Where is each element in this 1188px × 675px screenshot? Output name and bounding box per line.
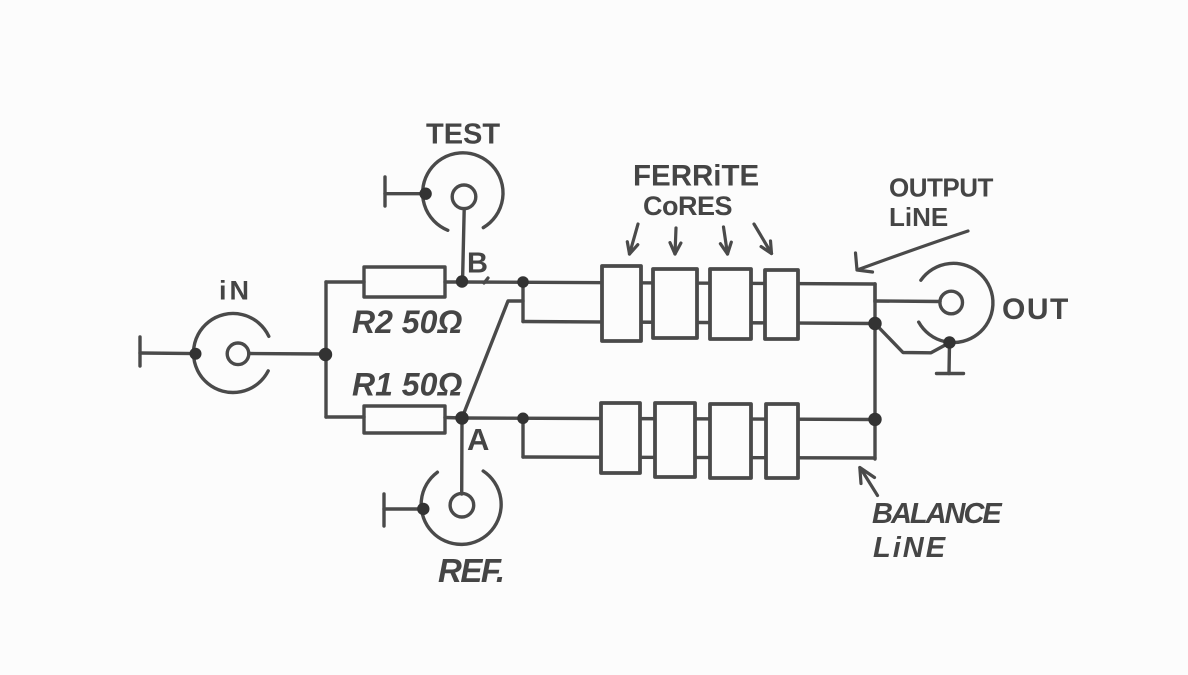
wire R2 to node B	[445, 280, 462, 283]
junction dot IN terminal	[190, 348, 202, 360]
wire top conductor of output line	[462, 282, 875, 284]
TEST connector center pin	[452, 185, 476, 209]
OUT connector center pin	[940, 291, 963, 314]
wire balance pair left vertical stub	[521, 418, 524, 457]
wire second conductor of output line	[523, 322, 875, 324]
balance line arrow	[861, 469, 878, 496]
ferrite core 1 output line	[602, 266, 641, 341]
ferrite core 2 output line	[653, 269, 697, 338]
svg-text:TEST: TEST	[426, 119, 500, 151]
svg-text:LiNE: LiNE	[889, 202, 948, 232]
stray tick near label B	[484, 278, 488, 283]
junction dot output pair start	[517, 276, 529, 288]
junction dot balance line end	[868, 413, 881, 426]
resistor R1 body	[364, 406, 445, 433]
ferrite cores (white filled over lines)	[601, 266, 798, 478]
REF connector outer shell arc	[421, 471, 501, 544]
wire right vertical trunk	[873, 284, 876, 459]
OUT ground stem	[947, 343, 951, 374]
svg-text:OUT: OUT	[1002, 293, 1070, 326]
wire main vertical trunk	[324, 282, 327, 417]
svg-text:iN: iN	[219, 276, 252, 306]
svg-text:REF.: REF.	[438, 552, 504, 589]
node A dot	[455, 411, 468, 424]
wire node A down to REF pin	[460, 421, 464, 494]
output line arrow	[859, 231, 969, 270]
ferrite arrow 4	[754, 224, 772, 254]
wire trunk to R2	[326, 280, 364, 283]
ferrite core 3 balance line	[710, 404, 751, 478]
junction dot TEST terminal	[419, 188, 431, 200]
wire second conductor of balance line	[523, 457, 875, 458]
wire TEST pin down to node B	[463, 209, 465, 279]
node B dot	[456, 275, 468, 287]
ferrite core 4 output line	[765, 270, 798, 339]
wire diagonal from node A to output line return	[462, 301, 523, 418]
svg-text:R2 50Ω: R2 50Ω	[352, 304, 462, 340]
TEST connector outer shell arc	[423, 153, 503, 230]
ferrite core 3 output line	[710, 269, 751, 339]
svg-text:LiNE: LiNE	[873, 532, 947, 564]
svg-text:B: B	[467, 248, 488, 280]
ferrite core 1 balance line	[601, 403, 640, 473]
wire REF terminal to REF connector	[384, 507, 422, 510]
wire junction to OUT ground	[875, 324, 948, 353]
ferrite arrow 1	[630, 224, 639, 254]
ferrite arrow 3	[724, 227, 728, 254]
IN terminal bar	[138, 337, 141, 366]
junction dot OUT ground	[943, 336, 955, 348]
wire trunk to R1	[326, 415, 364, 418]
junction dot main split	[319, 348, 332, 361]
svg-text:FERRiTE: FERRiTE	[633, 160, 759, 193]
wire top pair left vertical stub	[521, 282, 524, 322]
junction dot REF terminal	[417, 503, 429, 515]
svg-text:R1 50Ω: R1 50Ω	[352, 367, 462, 403]
svg-text:BALANCE: BALANCE	[872, 498, 1003, 530]
svg-text:OUTPUT: OUTPUT	[889, 173, 994, 203]
svg-text:CoRES: CoRES	[643, 191, 732, 221]
IN connector center pin	[227, 343, 249, 365]
OUT ground bar	[937, 372, 964, 375]
REF connector center pin	[450, 493, 474, 517]
junction dot output line return	[868, 317, 881, 330]
ferrite arrow 2	[675, 228, 676, 254]
wire IN terminal to IN connector	[140, 351, 196, 355]
wire R1 to node A	[445, 416, 462, 420]
OUT connector outer shell arc	[919, 263, 993, 342]
wire output line corner down to pin level	[873, 284, 876, 302]
wire OUT pin connection	[875, 299, 940, 303]
REF terminal bar	[382, 494, 385, 526]
junction dot balance pair start	[517, 413, 529, 425]
ferrite core 4 balance line	[766, 404, 798, 478]
wire top conductor of balance line	[462, 418, 875, 420]
IN connector outer shell arc	[193, 313, 268, 392]
wire IN pin to main junction	[249, 352, 324, 356]
resistor R2 body	[364, 267, 445, 297]
wire TEST terminal to TEST connector	[385, 192, 424, 195]
TEST terminal bar	[383, 177, 386, 206]
svg-text:A: A	[467, 422, 489, 457]
ferrite core 2 balance line	[655, 403, 695, 477]
